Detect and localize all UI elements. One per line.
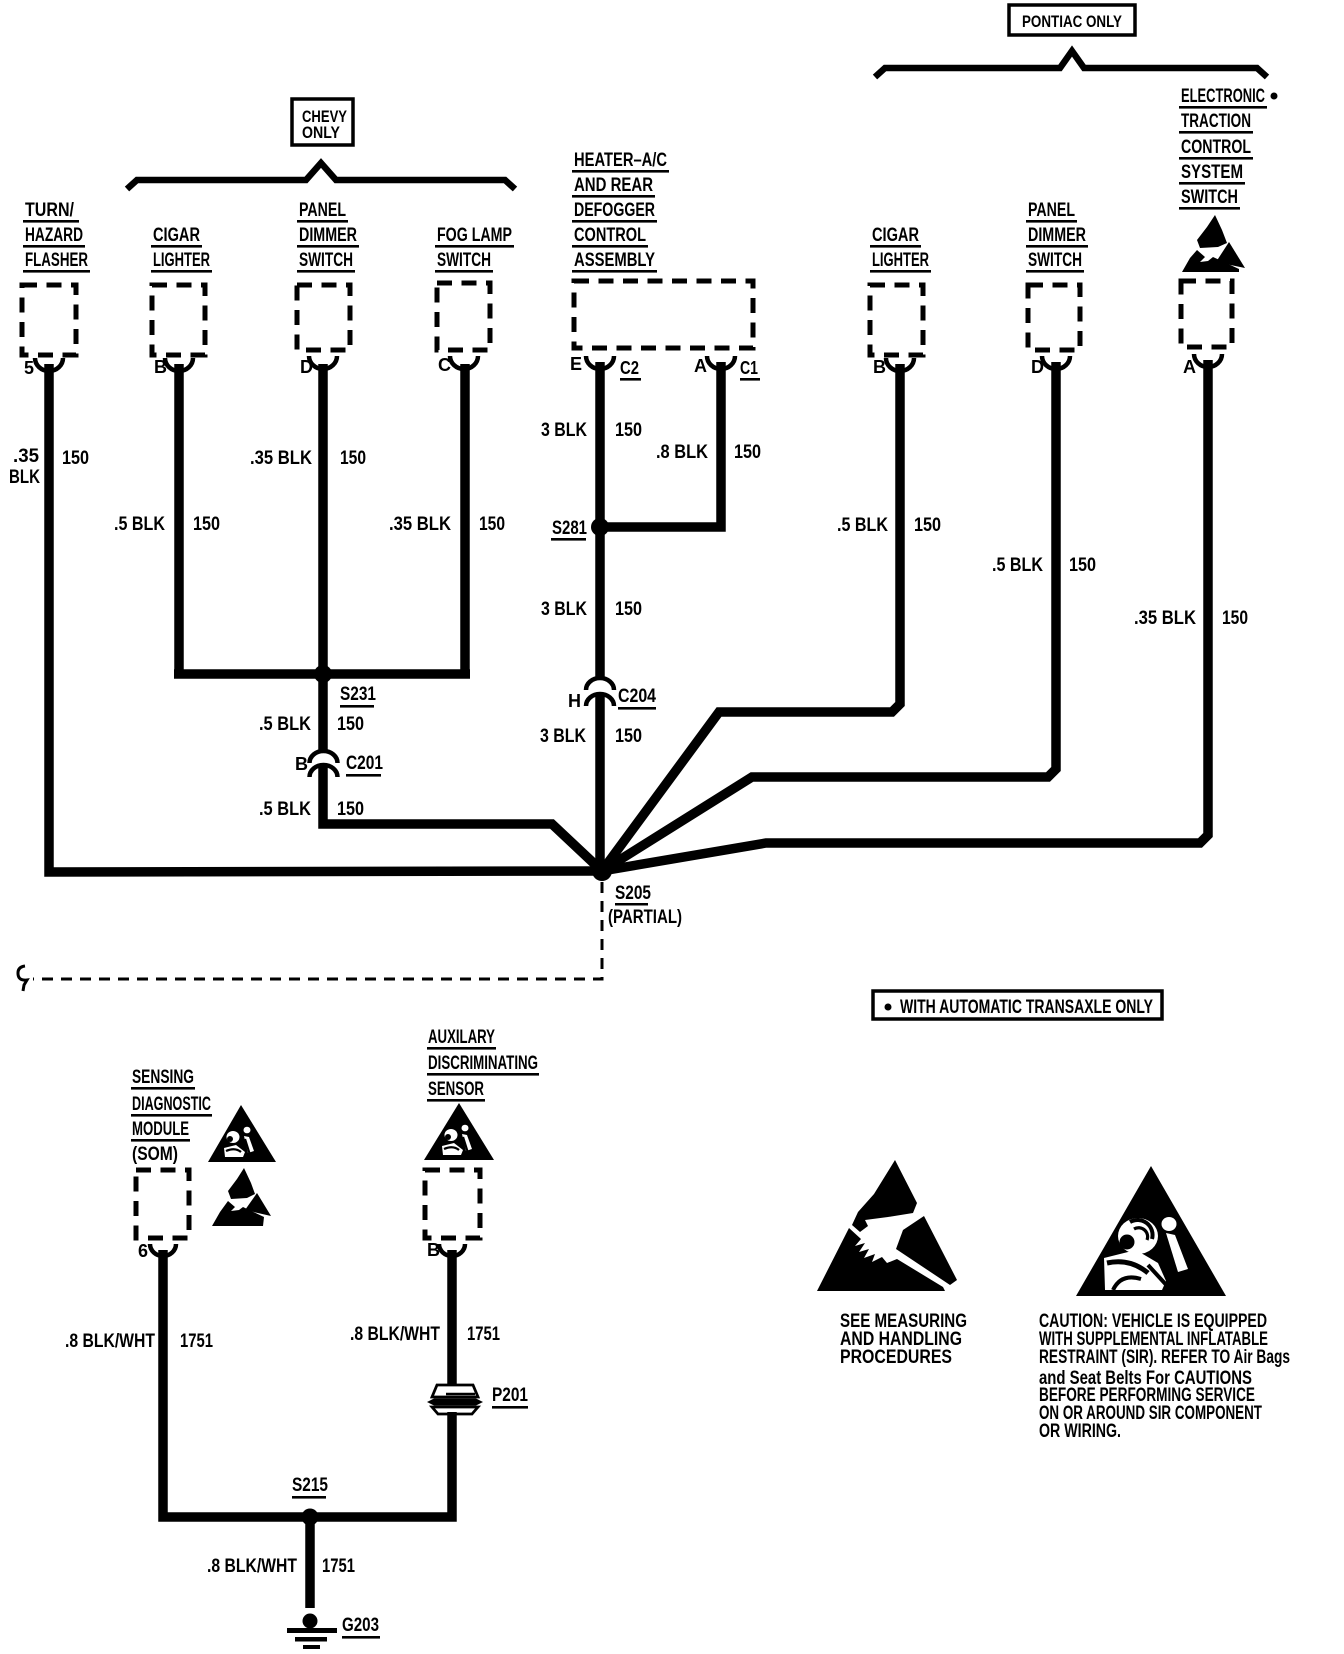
svg-text:(SOM): (SOM)	[132, 1144, 178, 1165]
connector P201	[427, 1385, 483, 1414]
svg-text:DIAGNOSTIC: DIAGNOSTIC	[132, 1094, 211, 1115]
svg-text:.8 BLK/WHT: .8 BLK/WHT	[207, 1556, 297, 1577]
node S205	[592, 861, 612, 881]
svg-text:PROCEDURES: PROCEDURES	[840, 1347, 952, 1368]
label .35 BLK 150 turn wire	[9, 446, 89, 488]
svg-text:PANEL: PANEL	[1028, 200, 1075, 221]
svg-text:150: 150	[337, 714, 364, 735]
svg-text:150: 150	[337, 799, 364, 820]
label .8 BLK/WHT 1751 SDM	[65, 1331, 213, 1352]
label turn/hazard flasher	[23, 200, 90, 273]
wire fog lamp switch down to S231	[460, 364, 470, 674]
label .35 BLK 150 panel left	[250, 448, 366, 469]
svg-text:OR WIRING.: OR WIRING.	[1039, 1421, 1121, 1442]
wire S215 to G203	[305, 1517, 315, 1608]
svg-text:CIGAR: CIGAR	[153, 225, 200, 246]
svg-text:FOG LAMP: FOG LAMP	[437, 225, 512, 246]
wire traction switch to S205	[602, 360, 1208, 871]
svg-text:SYSTEM: SYSTEM	[1181, 162, 1243, 183]
pin cup traction switch	[1194, 354, 1222, 367]
pin cup turn/hazard	[35, 358, 63, 371]
svg-text:150: 150	[1069, 555, 1096, 576]
svg-text:1751: 1751	[180, 1331, 213, 1352]
wire cigar lighter right to S205	[602, 364, 900, 871]
label S215	[292, 1475, 328, 1499]
svg-text:C1: C1	[740, 358, 758, 378]
label C201	[346, 753, 383, 777]
svg-text:WITH AUTOMATIC TRANSAXLE ONLY: WITH AUTOMATIC TRANSAXLE ONLY	[900, 997, 1153, 1018]
svg-text:ONLY: ONLY	[302, 123, 341, 142]
sir warning triangle (SDM)	[208, 1105, 276, 1162]
svg-text:SENSOR: SENSOR	[428, 1079, 484, 1100]
pin cup ADS	[439, 1244, 465, 1256]
turn/hazard flasher connector box	[22, 285, 76, 355]
svg-text:.5 BLK: .5 BLK	[114, 514, 165, 535]
SDM connector box	[136, 1170, 189, 1238]
esd warning triangle large (see measuring)	[817, 1160, 957, 1291]
svg-text:S215: S215	[292, 1475, 328, 1496]
pin C1	[740, 358, 760, 381]
svg-text:AND REAR: AND REAR	[574, 175, 653, 196]
svg-text:MODULE: MODULE	[132, 1119, 189, 1140]
svg-text:3 BLK: 3 BLK	[541, 599, 587, 620]
label .5 BLK 150 below C201	[259, 799, 364, 820]
label .8 BLK/WHT 1751 ground wire	[207, 1556, 355, 1577]
label cigar lighter (right)	[870, 225, 931, 273]
pin C2	[620, 358, 641, 381]
svg-text:C204: C204	[618, 686, 656, 707]
traction switch connector box	[1181, 281, 1232, 347]
node S231	[314, 665, 332, 683]
svg-text:C2: C2	[620, 358, 639, 378]
fog lamp switch connector box	[437, 283, 490, 350]
svg-text:P201: P201	[492, 1385, 528, 1406]
label .8 BLK/WHT 1751 ADS	[350, 1324, 500, 1345]
svg-text:150: 150	[914, 515, 941, 536]
node S281	[591, 518, 609, 536]
svg-text:S231: S231	[340, 684, 376, 705]
svg-text:150: 150	[615, 420, 642, 441]
svg-text:B: B	[427, 1240, 440, 1260]
pontiac-only callout box	[1009, 5, 1135, 35]
svg-text:BLK: BLK	[9, 467, 40, 488]
pin cup SDM	[150, 1244, 176, 1256]
svg-text:TURN/: TURN/	[25, 200, 75, 221]
label panel dimmer switch (left)	[297, 200, 359, 273]
svg-text:CIGAR: CIGAR	[872, 225, 919, 246]
svg-text:HAZARD: HAZARD	[25, 225, 83, 246]
svg-text:.35 BLK: .35 BLK	[250, 448, 312, 469]
svg-text:DIMMER: DIMMER	[1028, 225, 1086, 246]
label 3 BLK 150 top	[541, 420, 642, 441]
pin cup cigar lighter left	[165, 358, 193, 371]
label see measuring and handling procedures	[840, 1311, 967, 1368]
pin cup fog lamp	[450, 356, 478, 369]
pontiac-only brace	[875, 51, 1267, 77]
label .5 BLK 150 cigar right	[837, 515, 941, 536]
svg-text:SENSING: SENSING	[132, 1067, 194, 1088]
pin cup cigar lighter right	[886, 358, 914, 371]
svg-text:FLASHER: FLASHER	[25, 250, 88, 271]
wire C204 to S205	[595, 696, 605, 871]
label .5 BLK 150 below S231	[259, 714, 364, 735]
svg-text:SWITCH: SWITCH	[437, 250, 491, 271]
ADS connector box	[425, 1170, 480, 1238]
sir warning triangle large (caution)	[1076, 1166, 1226, 1296]
label S231	[340, 684, 376, 708]
with automatic transaxle only note box	[873, 991, 1162, 1019]
label fog lamp switch	[435, 225, 514, 273]
connector C204	[586, 678, 614, 706]
dashed continuation from S205	[33, 882, 602, 979]
svg-text:.8 BLK/WHT: .8 BLK/WHT	[65, 1331, 155, 1352]
label .5 BLK 150 cigar left	[114, 514, 220, 535]
svg-text:.8 BLK: .8 BLK	[656, 442, 708, 463]
svg-text:SWITCH: SWITCH	[1028, 250, 1082, 271]
label 3 BLK 150 bottom	[540, 726, 642, 747]
svg-text:PANEL: PANEL	[299, 200, 346, 221]
svg-text:1751: 1751	[467, 1324, 500, 1345]
label 3 BLK 150 middle	[541, 599, 642, 620]
label G203	[342, 1615, 380, 1639]
label .5 BLK 150 panel right	[992, 555, 1096, 576]
label C204	[618, 686, 656, 710]
svg-text:150: 150	[193, 514, 220, 535]
svg-text:.35: .35	[13, 446, 39, 467]
svg-text:CONTROL: CONTROL	[574, 225, 646, 246]
label caution vehicle is equipped	[1039, 1311, 1290, 1442]
svg-text:SWITCH: SWITCH	[1181, 187, 1238, 208]
node S215	[302, 1509, 319, 1526]
pin cup panel dimmer right	[1042, 356, 1070, 369]
svg-text:H: H	[568, 691, 581, 711]
svg-text:SWITCH: SWITCH	[299, 250, 353, 271]
label S205 (PARTIAL)	[608, 883, 682, 928]
svg-text:.35 BLK: .35 BLK	[389, 514, 451, 535]
wire C201 to S205	[323, 767, 602, 871]
ground G203	[287, 1614, 337, 1650]
label .35 BLK 150 fog lamp	[389, 514, 505, 535]
wire SDM to S215	[163, 1250, 310, 1517]
wire cigar lighter left down to S231	[174, 364, 184, 674]
svg-text:.8 BLK/WHT: .8 BLK/WHT	[350, 1324, 440, 1345]
svg-text:150: 150	[734, 442, 761, 463]
svg-text:150: 150	[479, 514, 505, 535]
pin cup heater A	[707, 356, 735, 369]
label auxilary discriminating sensor	[427, 1027, 539, 1102]
wire panel dimmer left down to C201	[318, 364, 328, 750]
svg-text:6: 6	[138, 1241, 148, 1261]
svg-text:.5 BLK: .5 BLK	[259, 714, 311, 735]
svg-text:G203: G203	[342, 1615, 379, 1636]
wire S231 horizontal	[174, 669, 470, 679]
svg-text:150: 150	[615, 726, 642, 747]
continuation squiggle	[18, 966, 27, 991]
svg-text:.5 BLK: .5 BLK	[837, 515, 888, 536]
svg-text:B: B	[295, 754, 308, 774]
svg-text:150: 150	[1222, 608, 1248, 629]
svg-text:TRACTION: TRACTION	[1181, 111, 1251, 132]
svg-text:HEATER–A/C: HEATER–A/C	[574, 150, 667, 171]
heater control assembly connector box	[574, 281, 753, 348]
wire heater A down to S281	[600, 362, 721, 527]
label .8 BLK 150	[656, 442, 761, 463]
svg-text:RESTRAINT (SIR). REFER TO Air: RESTRAINT (SIR). REFER TO Air Bags	[1039, 1347, 1290, 1368]
svg-text:S281: S281	[552, 518, 587, 539]
esd warning triangle (SDM)	[212, 1168, 271, 1226]
connector C201	[310, 751, 338, 777]
wire panel dimmer right to S205	[602, 362, 1056, 871]
wire heater E down to C204	[595, 362, 605, 679]
svg-text:ASSEMBLY: ASSEMBLY	[574, 250, 655, 271]
label S281	[551, 518, 587, 541]
svg-text:LIGHTER: LIGHTER	[153, 250, 210, 271]
esd warning icon (traction switch)	[1182, 215, 1245, 272]
svg-text:150: 150	[615, 599, 642, 620]
svg-text:.5 BLK: .5 BLK	[992, 555, 1043, 576]
svg-text:DISCRIMINATING: DISCRIMINATING	[428, 1053, 538, 1074]
label cigar lighter (left)	[151, 225, 212, 273]
svg-text:C201: C201	[346, 753, 383, 774]
chevy-only brace	[127, 163, 515, 189]
panel dimmer switch (right) connector box	[1028, 285, 1080, 350]
chevy-only callout box	[292, 99, 353, 145]
svg-text:3 BLK: 3 BLK	[541, 420, 587, 441]
wire ADS to P201	[447, 1250, 457, 1384]
label .35 BLK 150 traction switch	[1134, 608, 1248, 629]
svg-text:150: 150	[62, 448, 89, 469]
svg-text:DIMMER: DIMMER	[299, 225, 357, 246]
cigar lighter (right) connector box	[870, 285, 923, 355]
svg-text:150: 150	[340, 448, 366, 469]
cigar lighter (left) connector box	[152, 285, 205, 355]
svg-text:LIGHTER: LIGHTER	[872, 250, 929, 271]
label heater-a/c and rear defogger control assembly	[572, 150, 669, 273]
svg-text:E: E	[570, 354, 582, 374]
sir warning triangle (ADS)	[424, 1103, 494, 1160]
svg-text:(PARTIAL): (PARTIAL)	[608, 907, 682, 928]
wire P201 to S215	[310, 1412, 452, 1517]
panel dimmer switch (left) connector box	[297, 285, 350, 350]
svg-text:.35 BLK: .35 BLK	[1134, 608, 1196, 629]
svg-text:PONTIAC ONLY: PONTIAC ONLY	[1022, 12, 1123, 31]
wire turn/hazard flasher to ground bus	[49, 364, 602, 872]
svg-text:5: 5	[24, 358, 34, 378]
svg-text:AUXILARY: AUXILARY	[428, 1027, 495, 1048]
pin cup heater E	[586, 356, 614, 369]
pin cup panel dimmer left	[309, 356, 337, 369]
svg-text:S205: S205	[615, 883, 651, 904]
label sensing diagnostic module (SDM)	[131, 1067, 212, 1165]
svg-text:1751: 1751	[322, 1556, 355, 1577]
svg-text:DEFOGGER: DEFOGGER	[574, 200, 655, 221]
svg-text:.5 BLK: .5 BLK	[259, 799, 311, 820]
label electronic traction control system switch	[1179, 86, 1278, 210]
svg-text:3 BLK: 3 BLK	[540, 726, 586, 747]
label panel dimmer switch (right)	[1026, 200, 1088, 273]
svg-text:ELECTRONIC: ELECTRONIC	[1181, 86, 1265, 107]
svg-text:CONTROL: CONTROL	[1181, 137, 1251, 158]
label P201	[492, 1385, 528, 1409]
